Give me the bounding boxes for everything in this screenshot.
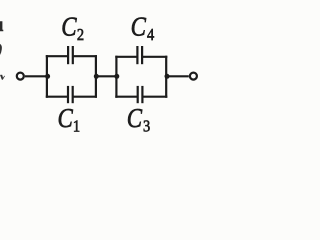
wire right loop left vertical bbox=[115, 56, 117, 98]
capacitor C2 plates bbox=[67, 46, 69, 64]
node C junction dot bbox=[114, 74, 119, 79]
node D junction dot bbox=[165, 74, 170, 79]
wire node B to node C bbox=[96, 75, 117, 77]
node A junction dot bbox=[45, 74, 50, 79]
terminal left bbox=[17, 73, 24, 80]
wire left terminal to node A bbox=[25, 75, 47, 77]
left-edge text fragment 2 bbox=[0, 44, 2, 55]
wire left loop top bbox=[46, 55, 68, 57]
terminal right bbox=[190, 73, 197, 80]
left-edge text fragment 1 bbox=[0, 21, 3, 31]
node B junction dot bbox=[94, 74, 99, 79]
capacitor C4 plates bbox=[136, 46, 138, 64]
wire left loop right vertical bbox=[95, 55, 97, 98]
wire right loop bottom bbox=[115, 96, 137, 98]
capacitor C3 plates bbox=[137, 86, 139, 103]
wire right loop right vertical bbox=[165, 56, 167, 98]
capacitor C1 plates bbox=[67, 86, 69, 103]
wire right loop top bbox=[115, 56, 137, 58]
wire left loop bottom bbox=[46, 96, 68, 98]
wire left loop left vertical bbox=[46, 55, 48, 98]
left-edge text fragment 3 bbox=[0, 75, 5, 80]
wire node D to right terminal bbox=[166, 75, 189, 77]
